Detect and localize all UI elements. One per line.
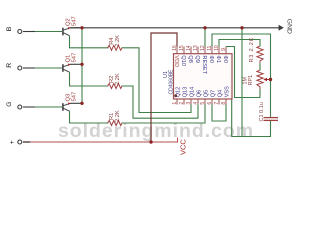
svg-text:VDD: VDD [173,55,179,67]
svg-text:14: 14 [186,45,192,51]
svg-text:547: 547 [72,92,78,102]
svg-text:Q6: Q6 [196,90,202,97]
svg-text:VCC: VCC [179,139,188,155]
svg-text:6: 6 [207,102,213,105]
svg-text:2.2K: 2.2K [115,110,121,122]
svg-text:4: 4 [193,102,199,105]
svg-text:7: 7 [214,102,220,105]
svg-text:RESET: RESET [201,55,207,74]
svg-text:Φ1: Φ1 [215,55,221,63]
svg-text:3: 3 [186,102,192,105]
svg-text:B: B [6,26,13,31]
svg-text:1: 1 [172,102,178,105]
svg-text:13: 13 [193,45,199,51]
svg-text:G: G [6,102,13,107]
svg-text:10: 10 [214,45,220,51]
svg-text:Q9: Q9 [194,55,200,62]
svg-text:R: R [6,63,13,68]
svg-text:12: 12 [200,45,206,51]
svg-text:16: 16 [172,45,178,51]
svg-text:547: 547 [72,16,78,26]
svg-text:GND: GND [286,19,293,34]
svg-text:2.2K: 2.2K [115,35,121,47]
svg-text:C1 0.1u: C1 0.1u [259,102,265,121]
svg-text:11: 11 [207,45,213,50]
svg-text:Φ0: Φ0 [208,55,214,63]
svg-text:8: 8 [221,102,227,105]
svg-text:Q13: Q13 [182,87,188,98]
svg-text:Q8: Q8 [187,55,193,62]
svg-text:VSS: VSS [224,86,230,97]
svg-text:547: 547 [72,53,78,63]
svg-text:2.2K: 2.2K [115,73,121,85]
svg-text:+: + [9,140,16,144]
svg-text:Q4: Q4 [217,90,223,97]
svg-text:Q5: Q5 [203,90,209,97]
svg-text:Q10: Q10 [180,55,186,66]
svg-text:CD4060BE: CD4060BE [168,69,174,95]
svg-text:15: 15 [179,45,185,51]
svg-text:Φ0: Φ0 [222,55,228,63]
svg-text:R3 2.2K: R3 2.2K [249,37,255,62]
svg-text:9: 9 [221,48,227,51]
svg-text:RP1: RP1 [248,75,254,86]
svg-text:2: 2 [179,102,185,105]
svg-text:Q7: Q7 [210,90,216,97]
svg-text:Q14: Q14 [189,87,195,98]
svg-text:5: 5 [200,102,206,105]
